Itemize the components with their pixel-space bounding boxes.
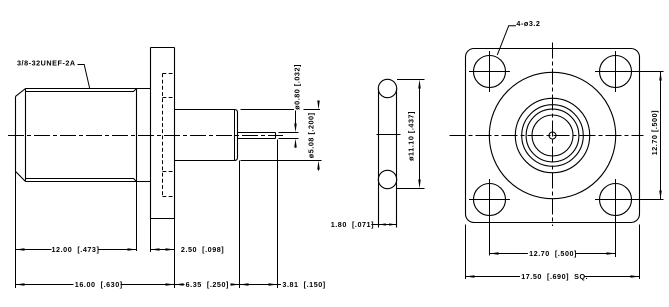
dia 5.08 label: [306, 112, 315, 158]
cylinder bottom: [175, 160, 235, 162]
flange bottom: [151, 218, 175, 220]
cylinder top: [175, 109, 235, 111]
body left face: [15, 96, 17, 171]
contact pin top: [238, 132, 276, 134]
svg-text:ø11.10 [.437]: ø11.10 [.437]: [406, 111, 415, 161]
gasket top ring section: [378, 79, 396, 97]
flange left extension line for 2.50 dim: [150, 219, 152, 253]
cylinder end face (rounded): [235, 110, 238, 161]
dia 0.80 extension lines: [279, 133, 299, 139]
dimension 1.80 line + arrows: [371, 224, 396, 226]
dia 11.10 label: [406, 111, 415, 161]
centerline (axis): [8, 135, 283, 137]
thread label leader: [78, 65, 90, 89]
contact pin bottom: [238, 138, 276, 140]
gasket right edge: [396, 89, 398, 228]
shell circle: [515, 98, 589, 172]
thread crest bottom: [26, 181, 151, 183]
svg-text:1.80 [.071]: 1.80 [.071]: [331, 220, 374, 229]
svg-text:4-ø3.2: 4-ø3.2: [516, 19, 540, 28]
boss circle: [489, 72, 615, 198]
center contact: [549, 132, 556, 139]
flange hidden recess horizontals: [163, 73, 175, 75]
chamfer bottom: [16, 171, 26, 181]
dia 0.80 dimension line below + arrow: [295, 144, 297, 148]
thread root top: [26, 89, 137, 92]
dia 5.08 dimension lines + arrows: [318, 101, 320, 105]
pin-end extension line for 3.81 dim: [277, 140, 279, 289]
hole TR: [600, 56, 632, 88]
square flange outline: [466, 49, 640, 223]
dia 11.10 dimension line + arrows: [419, 83, 421, 185]
interface circle: [526, 109, 579, 162]
hole BL crosshairs (vertical doubles as ext line): [469, 179, 510, 256]
gasket left edge: [378, 89, 380, 228]
insulator circle: [522, 105, 584, 167]
flange hidden recess vertical: [162, 74, 164, 197]
dia 0.80 dimension line above + arrow: [295, 111, 297, 127]
vertical centerline: [552, 43, 554, 227]
svg-text:6.35 [.250]: 6.35 [.250]: [186, 280, 229, 289]
thread end vertical: [136, 89, 138, 182]
flange right extension line down to 16.00/6.35 dims: [174, 219, 176, 289]
pin-start extension line for 6.35/3.81 dims: [239, 161, 241, 289]
hole TL: [474, 56, 506, 88]
svg-text:3/8-32UNEF-2A: 3/8-32UNEF-2A: [17, 58, 76, 67]
flange left face: [150, 48, 152, 219]
thread crest top: [26, 88, 151, 90]
horizontal centerline: [450, 135, 644, 137]
dimension 12.00 line: [16, 249, 137, 251]
thread root bottom: [26, 179, 137, 182]
svg-text:12.70 [.500]: 12.70 [.500]: [529, 249, 577, 258]
dia 5.08 extension lines: [241, 110, 322, 161]
hole TL crosshairs: [469, 51, 510, 92]
label leader: [497, 26, 516, 55]
svg-text:12.00 [.473]: 12.00 [.473]: [52, 245, 100, 254]
gasket centerline: [377, 134, 401, 136]
svg-text:2.50 [.098]: 2.50 [.098]: [181, 245, 224, 254]
dimension 12.70 vertical label: [650, 110, 659, 155]
svg-text:3.81 [.150]: 3.81 [.150]: [282, 280, 325, 289]
svg-text:16.00 [.630]: 16.00 [.630]: [75, 280, 123, 289]
flange top: [151, 47, 175, 49]
thread end extension line to 12.00 dim: [136, 182, 138, 252]
flange right face: [174, 48, 176, 219]
chamfer vertical: [25, 89, 27, 182]
dimension 12.70 vertical line + arrows: [660, 72, 662, 200]
dimension 6.35 line: [175, 284, 240, 286]
svg-text:ø5.08 [.200]: ø5.08 [.200]: [306, 112, 315, 158]
cylinder inner end line: [234, 110, 236, 161]
dia 11.10 extension lines: [397, 80, 425, 189]
hole BR: [600, 184, 632, 216]
contact pin end: [275, 133, 277, 139]
dimension 16.00 line: [16, 284, 175, 286]
hole BL: [474, 184, 506, 216]
dimension 2.50 line: [151, 249, 175, 251]
dia 0.80 label: [292, 64, 301, 110]
svg-text:ø0.80 [.032]: ø0.80 [.032]: [292, 64, 301, 110]
svg-text:12.70 [.500]: 12.70 [.500]: [650, 110, 659, 155]
dimension 17.50 line: [466, 276, 640, 278]
chamfer top: [16, 89, 26, 97]
dimension 3.81 line: [240, 284, 282, 286]
socket circle: [532, 115, 573, 156]
svg-text:17.50 [.690] SQ.: 17.50 [.690] SQ.: [521, 272, 588, 281]
body left face extension line down to dims: [15, 171, 17, 288]
dimension 12.70 horizontal line: [490, 253, 616, 255]
hole TR crosshairs (horizontal doubles as ext line): [595, 51, 664, 92]
flange corner extension lines for 17.50: [466, 225, 640, 280]
hole BR crosshairs (both extended as ext lines): [595, 179, 664, 257]
gasket bottom ring section: [378, 170, 396, 188]
